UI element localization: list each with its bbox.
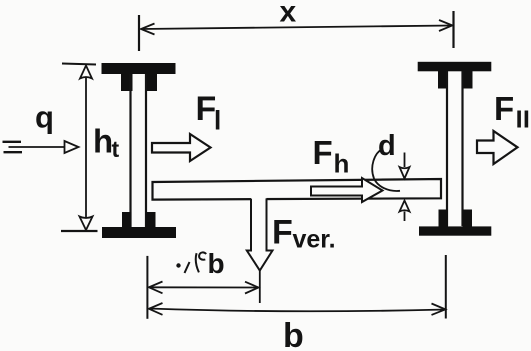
svg-text:h: h [93, 123, 113, 160]
force F_h hollow arrow [311, 178, 383, 202]
dimension x: extension line right [452, 11, 454, 48]
force F_I hollow arrow [152, 134, 211, 161]
left column: bottom flange plate [102, 227, 176, 238]
svg-text:F: F [494, 90, 514, 127]
load q: hatch stroke top [3, 141, 22, 143]
dimension 0.2b: dimension line [149, 286, 258, 288]
dimension b: dimension line [149, 309, 446, 312]
svg-text:F: F [196, 90, 217, 128]
dimension x: dimension line [141, 26, 452, 30]
label 0.2b (Persian ۰/۲b): dot [176, 263, 180, 267]
right column: top right stub [462, 71, 473, 89]
load q: arrow shaft [9, 146, 66, 148]
svg-text:F: F [313, 134, 333, 171]
svg-text:b: b [283, 317, 304, 351]
right column: bottom right stub [463, 210, 473, 227]
dimension d: lower arrowhead (up) [400, 201, 410, 212]
load q: hatch stroke bottom [4, 151, 23, 153]
force F_ver hollow arrow (down) [247, 197, 273, 271]
svg-text:d: d [378, 130, 396, 162]
dimension h_t: bottom tick [61, 230, 98, 232]
right column: bottom left stub [439, 210, 449, 227]
dimension x: arrowhead right [439, 20, 452, 31]
svg-text:q: q [35, 100, 54, 135]
dimension b: arrowhead right [432, 304, 446, 315]
svg-text:x: x [280, 0, 297, 29]
dimension h_t: arrowhead up [80, 66, 92, 79]
left column: bottom right stub [146, 212, 156, 228]
right column: web left line [446, 71, 448, 226]
dimension h_t: vertical line [85, 66, 87, 230]
svg-text:ver.: ver. [293, 226, 336, 254]
dimension b: arrowhead left [149, 303, 163, 315]
right column: web right line [461, 71, 463, 226]
d leader arc [372, 149, 400, 191]
dimension 0.2b: arrowhead right [245, 282, 259, 294]
dimension b: right extension line [445, 255, 447, 319]
left column: top right stub [146, 73, 158, 91]
left column: web right line [145, 74, 147, 227]
left column: top left stub [121, 73, 133, 91]
dimension d: upper arrowhead (down) [400, 167, 410, 179]
label 0.2b: slash [185, 262, 190, 273]
dimension x: extension line left [138, 15, 140, 51]
load q: open arrowhead [65, 141, 79, 153]
dimension h_t: top tick [62, 64, 96, 65]
dimension d: lower line [404, 212, 406, 222]
label 0.2b: digit ۲ [196, 252, 206, 272]
force F_II hollow arrow [477, 131, 518, 164]
right column: bottom flange plate [419, 226, 491, 235]
dimension 0.2b: left extension line [146, 256, 148, 319]
dimension 0.2b: center extension line [259, 271, 261, 304]
left column: web left line [129, 74, 131, 227]
beam (horizontal member) [153, 179, 442, 200]
left column: top flange plate [102, 63, 176, 74]
right column: top left stub [438, 71, 448, 89]
dimension d: upper line [404, 153, 406, 168]
right column: top flange plate [418, 62, 492, 72]
dimension 0.2b: arrowhead left [149, 282, 163, 294]
dimension x: arrowhead left [141, 24, 155, 35]
left column: bottom left stub [122, 212, 132, 228]
svg-text:b: b [208, 248, 225, 279]
svg-text:F: F [272, 214, 293, 252]
dimension h_t: arrowhead down [80, 217, 93, 231]
svg-text:h: h [334, 149, 350, 179]
svg-text:t: t [112, 136, 120, 162]
